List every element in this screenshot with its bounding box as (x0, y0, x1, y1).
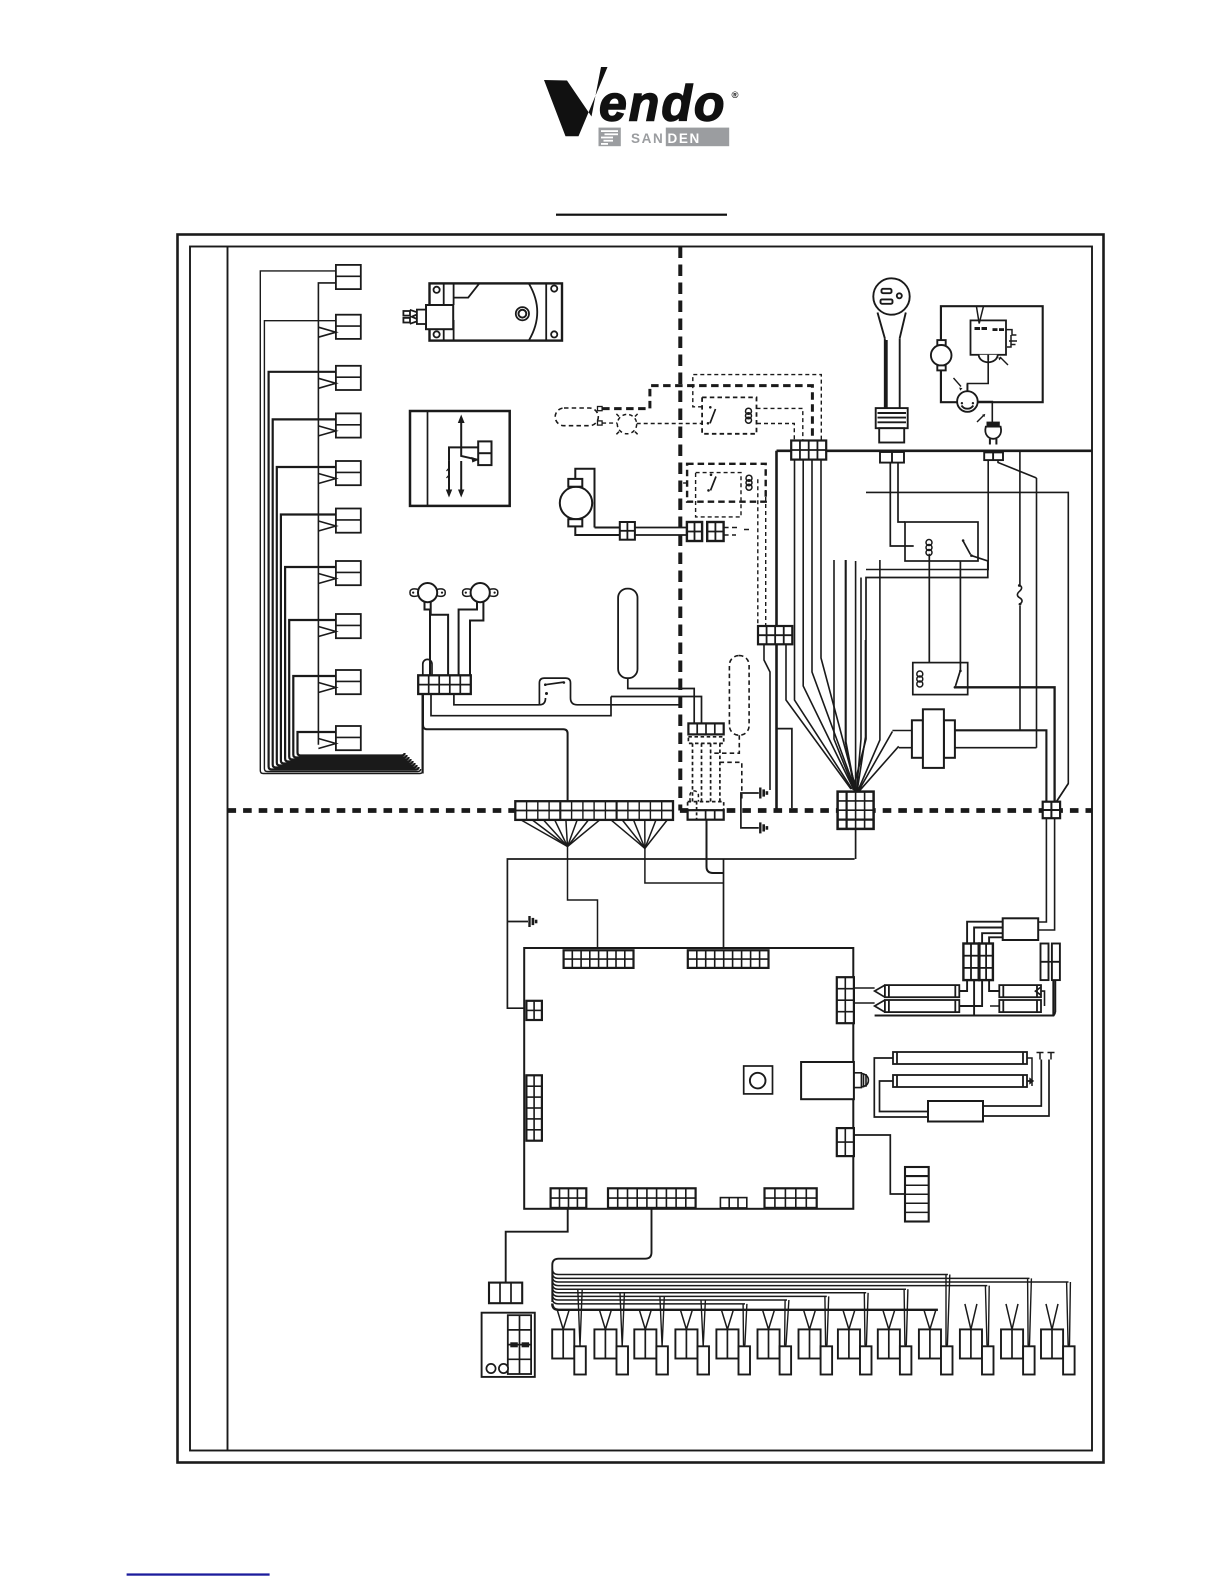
strain relief ribs (876, 408, 908, 428)
relay RY2 (dashed) (687, 464, 766, 502)
RY3 wires (853, 556, 988, 790)
filter connector CN13 (489, 1283, 522, 1304)
selection switch detail box (410, 411, 510, 506)
resistor R2 (999, 1000, 1041, 1012)
door harness connector CN4 (688, 723, 723, 801)
wire bus9 (293, 676, 406, 758)
up arrow (460, 421, 462, 447)
transformer TR1 (892, 709, 1046, 801)
connector box row 3 (336, 366, 361, 390)
wire bus2 (264, 321, 420, 772)
pointer to thermostat (954, 378, 962, 387)
wire bus5 (277, 467, 415, 766)
board connector C (bottom) (551, 1188, 587, 1208)
connector box row 9 (336, 670, 361, 694)
TR1 right leads (955, 730, 1047, 801)
ground bracket near door connector (741, 793, 759, 828)
break zigzag (875, 985, 885, 1012)
connector CN6 (758, 626, 851, 790)
connector CN2 (door harness strip) (515, 801, 673, 820)
lamp connector pair CN12 (979, 944, 993, 981)
pointer arrows (1000, 357, 1008, 365)
heater tube H2 (885, 1000, 959, 1012)
title rule (556, 214, 727, 216)
heavy dashed partition vertical (door / cabinet) (678, 247, 682, 811)
vend motor connector VM7 (799, 1329, 833, 1374)
wire board to relay stack (854, 1135, 905, 1194)
compressor plug P2 (985, 423, 1001, 445)
lamp starter marks (1037, 1053, 1055, 1060)
board connector F (bottom) (765, 1188, 817, 1208)
wire D to motor bundle (552, 1209, 651, 1302)
spade terminal (417, 310, 426, 324)
door lamp FL1b (door side, dashed) (711, 656, 750, 802)
RY2 dashed leads down to CN6 (680, 479, 765, 626)
fluorescent lamp FL2 (893, 1052, 1027, 1064)
vend motor connector VM10 (919, 1329, 953, 1374)
door interlock switch (dashed stadium) (555, 408, 598, 426)
relay RY1 (dashed) (702, 397, 756, 433)
plug cord body (885, 338, 900, 408)
wire bus10 (298, 732, 405, 756)
footer link rule (127, 1573, 270, 1575)
vend motor connector VM11 (960, 1329, 994, 1374)
jumper loop on strip (423, 659, 432, 676)
RY1 switch (709, 406, 712, 409)
RY4 thick output wire to CN10 (955, 687, 1055, 801)
connector box row 7 (336, 561, 361, 585)
lamp ballast B1 (1003, 918, 1038, 940)
main harness wire to board (507, 859, 854, 1008)
vend motor connector VM9 (878, 1329, 912, 1374)
motor shaft circles (516, 307, 529, 320)
heavy dashed partition horizontal (228, 808, 1093, 813)
deck receptacle for P1 (880, 452, 904, 463)
RY2 coil (746, 475, 752, 490)
board connector R1 (right) (837, 977, 854, 1023)
relay stack K1 (905, 1167, 929, 1222)
CN9 output to control board (855, 829, 857, 859)
vend motor connector VM4 (675, 1329, 709, 1374)
resistor R1 (999, 985, 1041, 997)
svg-text:SAN: SAN (631, 131, 664, 146)
wire bus7 (285, 567, 411, 762)
main receptacle wires (890, 463, 913, 546)
fluorescent lamp FL3 (893, 1075, 1027, 1087)
connector box row 5 (336, 461, 361, 485)
heater tube H1 (885, 985, 959, 997)
RY2 switch (710, 474, 713, 477)
interlock pins (598, 407, 603, 411)
deck wiring funnel (795, 460, 899, 792)
outer page frame (178, 235, 1104, 1463)
left column selection connectors J1-J10 (260, 265, 422, 774)
trunk taps to left boxes (557, 1304, 1058, 1330)
CN2 fan-out left (521, 820, 600, 948)
thin dashed lamp wires (602, 375, 821, 441)
buzzer BZ1 (744, 1066, 773, 1094)
vend motor connector VM13 (1041, 1329, 1075, 1374)
board connector E (bottom small) (720, 1198, 746, 1208)
daisy chain wire with arrows (318, 283, 336, 749)
fan mating connectors (thick) (687, 522, 702, 541)
wire bus4 (273, 419, 417, 767)
dashed mating half (688, 737, 723, 802)
fan connector CN7 (620, 522, 752, 541)
connector box row 1 (336, 265, 361, 289)
thin dashed loop to relay RY1 (693, 375, 822, 441)
relay RY3 (853, 522, 988, 790)
plug neck (878, 313, 906, 339)
connector CN10 (1043, 802, 1060, 819)
vend motor connector VM5 (716, 1329, 750, 1374)
wire bus3 (269, 372, 419, 770)
relay bottom bump (979, 355, 998, 363)
ground G3 (530, 916, 537, 927)
internal wires (967, 360, 988, 391)
CN2 fan-out right (611, 820, 724, 883)
wire bus8 (289, 620, 408, 760)
selector cell box (478, 441, 491, 465)
connector box row 2 (336, 315, 361, 339)
thermostat (klixon) T1 (410, 583, 498, 676)
fan motor wire loop (575, 469, 620, 535)
deck edge stub to dashed line (777, 729, 792, 808)
inner page frame (190, 247, 1092, 1451)
heavy dashed interlock wire (602, 386, 812, 441)
motor harness trunk thick (552, 1304, 938, 1310)
board transformer TR2 (801, 1062, 854, 1099)
board connector R2 (right lower) (837, 1128, 854, 1156)
door connector CN5 (dashed half) (688, 791, 724, 873)
vend motor M1 (403, 283, 562, 340)
svg-text:endo: endo (599, 76, 726, 132)
ballast B1 wires (967, 922, 1003, 944)
power plug P1 face (873, 278, 909, 442)
vend motor connector VM1 (552, 1329, 586, 1374)
housing notch (454, 283, 480, 297)
wire C to filter (506, 1209, 568, 1283)
ground G2 (760, 822, 767, 833)
lamp cluster bus (854, 962, 1055, 1016)
board connector A (top left) (564, 950, 634, 968)
RY1 coil (746, 408, 752, 423)
connector box row 4 (336, 413, 361, 437)
vend motor connector VM2 (594, 1329, 628, 1374)
Vendo logo wordmark (544, 67, 739, 136)
refrigeration deck top edge (777, 449, 1093, 452)
CN10 wires down to ballast (1038, 818, 1054, 930)
vend motor connector VM3 (634, 1329, 668, 1374)
compressor motor M3 (931, 306, 952, 402)
lamp loop wires (874, 1058, 1049, 1117)
motor harness bus (552, 1269, 1068, 1304)
lamp ticks (616, 414, 637, 434)
harness riser to lamp-socket connector (422, 694, 424, 774)
motor gear housing arc (529, 284, 537, 340)
wire strip to door switch circuit (423, 694, 611, 801)
connector CN9 (main harness) (838, 792, 874, 829)
deck receptacle for P2 (984, 452, 1003, 460)
compressor start relay (971, 306, 1018, 365)
connector box row 8 (336, 614, 361, 638)
board connector L2 (left tall) (526, 1075, 542, 1140)
deck power connector CN8 (791, 441, 826, 460)
klixon wires to connector strip (425, 602, 431, 676)
harness drops to vend motor connectors (578, 1275, 1071, 1347)
CN10 riser diagonal (1056, 783, 1068, 801)
start capacitor (1006, 330, 1017, 347)
connector box row 10 (336, 726, 361, 750)
connector box row 6 (336, 509, 361, 533)
vend motor connector VM12 (1001, 1329, 1035, 1374)
lamp ballast B2 (928, 1101, 983, 1122)
board connector L1 (left small) (526, 1001, 542, 1020)
plug lower shell (879, 428, 904, 442)
evaporator fan motor M2 (560, 469, 620, 535)
cabinet lamp FL1 (611, 589, 702, 724)
down arrows (460, 461, 462, 491)
refrigeration deck left edge (775, 451, 778, 811)
power module PM1 (482, 1313, 535, 1377)
ground G1 (760, 788, 767, 799)
fuse F1 (1041, 944, 1049, 981)
svg-text:®: ® (732, 90, 739, 101)
motor terminal block (426, 305, 453, 329)
lamp connector pair CN11 (963, 944, 978, 981)
fuse F2 (1052, 944, 1060, 981)
compressor thermostat TH1 (954, 360, 993, 423)
board connector B (top right) (688, 950, 769, 968)
wire with break squiggle (866, 452, 1068, 802)
door switch S1 (539, 678, 680, 705)
door lamp L2 (dashed circle) (617, 414, 636, 433)
dashed jumper loop on door connector (690, 791, 698, 802)
relay RY4 (913, 663, 1055, 802)
Sanden logo bar (599, 128, 730, 147)
compressor unit box (941, 306, 1043, 402)
jack J11 (854, 1073, 869, 1088)
lamp socket connector strip CN3 (418, 675, 471, 694)
wire bus1 (260, 271, 422, 774)
TR1 left leads (892, 731, 912, 748)
vend motor connector VM8 (838, 1329, 872, 1374)
wire bus6 (281, 515, 413, 764)
left margin column line (227, 247, 229, 1451)
board connector D (bottom) (608, 1188, 696, 1208)
CN6 wires (786, 644, 851, 789)
vend motor connector VM6 (758, 1329, 792, 1374)
control board PCB1 (524, 948, 853, 1209)
wire below door connector (707, 820, 724, 873)
svg-text:DEN: DEN (668, 131, 701, 146)
